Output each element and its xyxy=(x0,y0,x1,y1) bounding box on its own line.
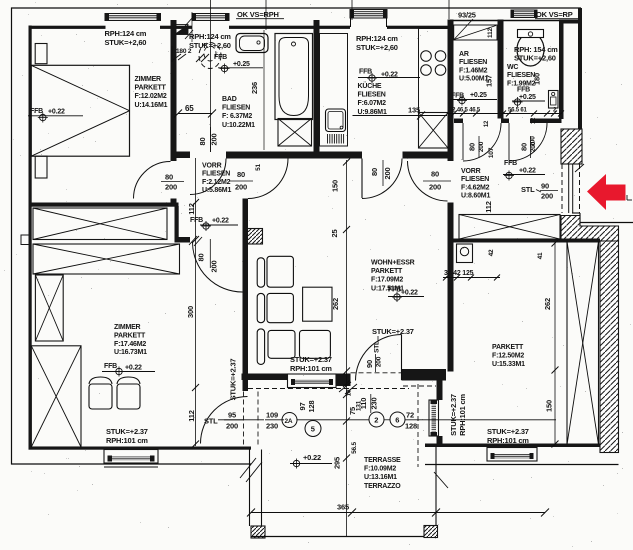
svg-text:200: 200 xyxy=(530,141,537,152)
svg-text:KÜCHE: KÜCHE xyxy=(358,81,382,90)
circled 2 xyxy=(369,412,384,427)
circled 6 xyxy=(390,412,405,427)
dim line bad 65 xyxy=(178,113,212,115)
wall Zimmer1/Bad xyxy=(171,20,177,161)
wall top inner face segments xyxy=(29,26,106,29)
outer boundary bottom-left xyxy=(11,463,251,465)
chair 2 zimmer2 xyxy=(117,384,140,409)
svg-text:109: 109 xyxy=(266,411,278,420)
slash ticks living bottom wall end xyxy=(339,382,351,392)
svg-text:128: 128 xyxy=(307,401,316,413)
svg-text:+0.22: +0.22 xyxy=(125,365,142,372)
nightstand bottom xyxy=(35,156,47,178)
slash ticks bad wall 18/12 xyxy=(196,54,204,62)
wardrobe2 zimmer2 xyxy=(33,244,180,274)
svg-text:128: 128 xyxy=(405,422,417,431)
pier hatched living top-left xyxy=(248,229,263,245)
svg-text:180 2: 180 2 xyxy=(176,48,192,55)
hall wardrobe X xyxy=(459,215,560,240)
dim chain mid x346 xyxy=(346,160,348,373)
svg-text:72: 72 xyxy=(406,411,414,420)
svg-text:ZIMMER: ZIMMER xyxy=(135,76,162,83)
svg-text:FLIESEN: FLIESEN xyxy=(358,92,386,99)
svg-text:200: 200 xyxy=(210,261,219,273)
svg-text:80: 80 xyxy=(370,168,379,176)
svg-text:STUK=+2,60: STUK=+2,60 xyxy=(105,38,147,47)
sofa cushions living xyxy=(267,256,293,287)
svg-text:2: 2 xyxy=(374,415,378,424)
svg-text:F:17.46M2: F:17.46M2 xyxy=(114,341,146,348)
svg-text:STUK=+2,60: STUK=+2,60 xyxy=(514,54,556,63)
tick entry step xyxy=(575,164,584,172)
door terrace arc + leaf xyxy=(356,335,402,381)
svg-text:+0.25: +0.25 xyxy=(233,61,250,68)
svg-text:80: 80 xyxy=(520,143,529,151)
dim line hall 34 42 125 xyxy=(443,277,500,279)
dim chain right x555 xyxy=(554,242,556,446)
svg-text:FFB: FFB xyxy=(104,363,117,370)
svg-text:200: 200 xyxy=(478,141,485,152)
dim chain mid lower x351 xyxy=(346,373,348,536)
leader line row xyxy=(218,419,264,421)
washing machine xyxy=(457,244,473,263)
svg-text:FFB: FFB xyxy=(30,108,43,115)
svg-text:51: 51 xyxy=(255,164,262,171)
svg-text:FFB: FFB xyxy=(504,160,517,167)
window W3 top (kitchen) xyxy=(350,10,387,19)
hatch wall entry east xyxy=(561,129,582,164)
svg-text:U:17.51M1: U:17.51M1 xyxy=(371,285,404,292)
svg-text:STUK=+2.37: STUK=+2.37 xyxy=(487,427,529,436)
wall WC bottom piece xyxy=(530,119,562,124)
svg-text:F:4.62M2: F:4.62M2 xyxy=(461,184,490,191)
wall top inner face right portion (AR/WC) xyxy=(448,20,582,22)
svg-text:365: 365 xyxy=(337,503,349,512)
door vorr1-zimmer2 arc xyxy=(193,242,243,292)
bathtub xyxy=(275,34,313,120)
hatch wall corner A xyxy=(561,216,619,242)
svg-text:RPH:124 cm: RPH:124 cm xyxy=(189,32,231,41)
svg-text:112: 112 xyxy=(187,203,196,215)
radiator entry xyxy=(549,91,559,109)
tick top window W1 right xyxy=(191,12,193,42)
dashed zimmer2 south door xyxy=(243,392,245,446)
toilet WC xyxy=(517,33,544,66)
svg-text:RPH:124 cm: RPH:124 cm xyxy=(356,34,398,43)
window W1 top (zimmer1) xyxy=(105,14,161,21)
svg-text:BAD: BAD xyxy=(222,96,237,103)
svg-text:262: 262 xyxy=(331,298,340,310)
svg-text:12 46.5 46.5: 12 46.5 46.5 xyxy=(449,108,481,114)
svg-text:200: 200 xyxy=(376,356,383,367)
svg-text:RPH:124 cm: RPH:124 cm xyxy=(105,29,147,38)
svg-text:97: 97 xyxy=(298,403,307,411)
wall bottom-left exterior xyxy=(29,447,252,450)
svg-text:U:5.86M1: U:5.86M1 xyxy=(202,187,231,194)
door vorr1-living arc xyxy=(248,159,288,199)
svg-text:FFB: FFB xyxy=(359,69,372,76)
svg-text:F:10.09M2: F:10.09M2 xyxy=(364,466,396,473)
svg-text:200: 200 xyxy=(210,134,219,146)
wall Bad/Kueche bottom xyxy=(226,152,362,159)
svg-text:200: 200 xyxy=(165,183,177,192)
terrace post left hatched xyxy=(251,526,265,538)
outer boundary bottom-right xyxy=(425,464,619,466)
svg-text:6: 6 xyxy=(395,415,399,424)
svg-text:236: 236 xyxy=(250,82,259,94)
wall parkett room top xyxy=(452,239,600,243)
svg-text:80: 80 xyxy=(468,143,477,151)
dim 236 bad xyxy=(263,30,265,150)
terrace right line xyxy=(435,447,437,526)
svg-text:80: 80 xyxy=(165,173,173,182)
svg-text:STL: STL xyxy=(204,417,218,426)
wall entry inner right xyxy=(559,20,564,120)
svg-text:F:2.12M2: F:2.12M2 xyxy=(202,179,231,186)
svg-text:41: 41 xyxy=(537,252,544,259)
svg-text:80: 80 xyxy=(197,254,206,262)
svg-text:12: 12 xyxy=(484,120,490,127)
svg-text:F:17.09M2: F:17.09M2 xyxy=(371,277,403,284)
wardrobe tall zimmer2 xyxy=(31,346,81,447)
svg-text:80: 80 xyxy=(198,138,207,146)
svg-text:PARKETT: PARKETT xyxy=(135,85,167,92)
circled 2A xyxy=(282,413,297,428)
entry door dashed xyxy=(561,164,563,213)
door kitchen arc + leaf xyxy=(362,159,402,199)
svg-text:PARKETT: PARKETT xyxy=(114,332,146,339)
svg-text:+0.22: +0.22 xyxy=(303,453,321,462)
bed zimmer1 xyxy=(31,65,129,156)
svg-text:300: 300 xyxy=(186,306,195,318)
chair 1 zimmer2 xyxy=(89,384,112,409)
dim line AR/WC row xyxy=(448,113,562,115)
svg-text:U:5.00M1: U:5.00M1 xyxy=(459,76,488,83)
svg-text:34 42 125: 34 42 125 xyxy=(444,270,474,277)
svg-text:107: 107 xyxy=(488,147,495,158)
svg-text:FLIESEN: FLIESEN xyxy=(202,171,230,178)
dim chain left x195 xyxy=(195,158,197,446)
kitchen sink xyxy=(326,109,346,132)
svg-text:56.5: 56.5 xyxy=(351,441,358,453)
svg-text:F:12.02M2: F:12.02M2 xyxy=(135,93,167,100)
svg-text:FFB: FFB xyxy=(214,54,227,61)
wall Bad bottom left stub xyxy=(176,152,190,159)
svg-text:90: 90 xyxy=(365,360,374,368)
svg-text:FLIESEN: FLIESEN xyxy=(222,105,250,112)
dashed terrace door threshold xyxy=(351,372,402,374)
svg-text:RPH:101 cm: RPH:101 cm xyxy=(290,364,332,373)
svg-text:200: 200 xyxy=(429,183,441,192)
wall step block terrace corner xyxy=(402,369,447,381)
wall bump left exterior xyxy=(21,235,29,245)
slash ticks vorr1 bottom opening xyxy=(189,236,197,245)
slash ticks zimmer2 terrace corner xyxy=(240,458,256,478)
outer boundary thin line top xyxy=(11,7,581,9)
dashed overhang line living xyxy=(248,388,409,390)
svg-text:WOHN+ESSR: WOHN+ESSR xyxy=(371,260,415,267)
svg-text:STUK=+2.37: STUK=+2.37 xyxy=(229,359,238,401)
svg-text:F:1.46M2: F:1.46M2 xyxy=(459,67,488,74)
svg-text:F: 6.37M2: F: 6.37M2 xyxy=(222,113,252,120)
svg-text:U:10.22M1: U:10.22M1 xyxy=(222,122,255,129)
window W7 west (parkett, vertical) xyxy=(429,400,439,436)
svg-text:F:6.07M2: F:6.07M2 xyxy=(358,100,387,107)
svg-text:STUK=+2.37: STUK=+2.37 xyxy=(372,327,414,336)
svg-text:112: 112 xyxy=(487,27,494,37)
svg-text:WC: WC xyxy=(507,64,518,71)
svg-text:+0.25: +0.25 xyxy=(470,92,487,99)
dashed parkett west xyxy=(417,384,419,467)
wall living bottom xyxy=(242,374,288,381)
svg-text:FLIESEN: FLIESEN xyxy=(459,59,487,66)
svg-text:OK VS=RPH: OK VS=RPH xyxy=(237,10,279,19)
svg-text:TERRAZZO: TERRAZZO xyxy=(364,483,401,490)
wall right exterior top xyxy=(578,8,582,131)
svg-text:U:13.16M1: U:13.16M1 xyxy=(364,474,397,481)
svg-text:262: 262 xyxy=(543,298,552,310)
wall top inner line under windows xyxy=(105,20,161,22)
window W4 top (entry) xyxy=(511,10,537,18)
svg-text:135: 135 xyxy=(408,106,420,115)
dim line kitchen 135 xyxy=(353,115,448,117)
svg-text:U:15.33M1: U:15.33M1 xyxy=(492,361,525,368)
svg-text:STL: STL xyxy=(374,341,381,353)
parkett tall wardrobe X xyxy=(567,242,599,445)
small L mark right edge xyxy=(626,195,628,200)
svg-text:150: 150 xyxy=(545,400,554,412)
svg-text:200: 200 xyxy=(226,422,238,431)
kitchen drainer xyxy=(327,134,329,144)
svg-text:295: 295 xyxy=(333,457,342,469)
nightstand top xyxy=(35,44,47,64)
svg-text:112: 112 xyxy=(484,201,493,213)
svg-text:PARKETT: PARKETT xyxy=(371,268,403,275)
svg-text:PARKETT: PARKETT xyxy=(492,344,524,351)
svg-text:230: 230 xyxy=(266,422,278,431)
svg-text:56.5 61: 56.5 61 xyxy=(508,108,527,114)
red arrow pointer xyxy=(587,174,626,210)
kitchen counter right + stove xyxy=(419,29,449,113)
window W5 bottom (zimmer2) xyxy=(104,450,158,464)
wall AR/WC xyxy=(498,20,504,119)
svg-text:STUK=+2.37: STUK=+2.37 xyxy=(106,427,148,436)
step out corner lines xyxy=(572,212,580,214)
svg-text:+0.22: +0.22 xyxy=(519,168,536,175)
svg-text:OK VS=RP: OK VS=RP xyxy=(536,10,573,19)
wall VORR1 right / living left xyxy=(243,156,249,159)
dim 365 terrace xyxy=(251,512,545,514)
svg-text:STUK=+2.37: STUK=+2.37 xyxy=(290,355,332,364)
wardrobe1 zimmer2 xyxy=(33,208,167,240)
cabinet narrow zimmer2 xyxy=(35,275,63,341)
flue symbol zimmer1/bad wall xyxy=(174,25,188,35)
svg-text:+0.25: +0.25 xyxy=(519,94,536,101)
svg-text:80: 80 xyxy=(237,170,245,179)
svg-text:F:12.50M2: F:12.50M2 xyxy=(492,352,524,359)
svg-text:STUK=+2,60: STUK=+2,60 xyxy=(356,43,398,52)
terrace left wall lines xyxy=(249,450,251,527)
svg-text:+0.22: +0.22 xyxy=(212,218,229,225)
slash ticks window W2 left end xyxy=(185,17,193,26)
svg-text:VORR: VORR xyxy=(202,163,222,170)
wall Zimmer1/Zimmer2 xyxy=(30,203,179,207)
bath cabinet X xyxy=(278,119,312,147)
svg-text:STUK=+2.37: STUK=+2.37 xyxy=(449,394,458,436)
wall parkett west lower xyxy=(437,372,443,401)
sofa back segments living xyxy=(257,258,264,287)
outer boundary thin line left xyxy=(11,8,13,465)
svg-text:12: 12 xyxy=(531,117,537,124)
svg-text:25: 25 xyxy=(330,230,339,238)
svg-text:+0.22: +0.22 xyxy=(48,109,65,116)
svg-text:STUK=+2,60: STUK=+2,60 xyxy=(189,41,231,50)
window W6 bottom (parkett) xyxy=(487,448,537,462)
door living-corridor arc xyxy=(408,161,448,201)
svg-text:200: 200 xyxy=(383,168,392,180)
svg-text:200: 200 xyxy=(235,183,247,192)
door bad arc xyxy=(190,159,226,195)
hatch wall east B xyxy=(600,241,619,453)
dim extension lines top xyxy=(210,0,212,152)
svg-text:U:8.60M1: U:8.60M1 xyxy=(461,193,490,200)
door AR arc xyxy=(463,123,501,161)
circled 5 xyxy=(305,421,321,437)
svg-text:F:1.99M2: F:1.99M2 xyxy=(507,80,536,87)
svg-text:VORR: VORR xyxy=(461,168,481,175)
svg-text:TERRASSE: TERRASSE xyxy=(364,457,401,464)
svg-text:150: 150 xyxy=(331,180,340,192)
door zimmer1 arc xyxy=(134,162,171,199)
wall left exterior xyxy=(29,26,32,449)
svg-text:230: 230 xyxy=(370,398,379,410)
svg-text:U:9.86M1: U:9.86M1 xyxy=(358,109,387,116)
window W2 top (bad) xyxy=(192,14,229,21)
svg-text:RPH:101 cm: RPH:101 cm xyxy=(458,394,467,436)
svg-text:110: 110 xyxy=(359,398,368,410)
svg-text:65: 65 xyxy=(185,104,194,113)
svg-text:U:16.73M1: U:16.73M1 xyxy=(114,349,147,356)
kitchen counter left xyxy=(320,34,348,147)
svg-text:95: 95 xyxy=(228,411,236,420)
washbasin bad xyxy=(236,34,268,53)
svg-text:U:14.16M1: U:14.16M1 xyxy=(135,102,168,109)
svg-text:RPH:101 cm: RPH:101 cm xyxy=(487,436,529,445)
kitchen fridge X xyxy=(419,113,449,149)
svg-text:93/25: 93/25 xyxy=(458,11,476,20)
table living xyxy=(303,287,332,321)
svg-text:90: 90 xyxy=(541,182,549,191)
svg-text:FFB: FFB xyxy=(517,87,530,94)
AR shaft xyxy=(454,25,497,40)
svg-text:ZIMMER: ZIMMER xyxy=(114,324,141,331)
svg-text:FLIESEN: FLIESEN xyxy=(507,72,535,79)
wall bottom-right exterior xyxy=(425,444,600,448)
svg-text:FFB: FFB xyxy=(190,217,203,224)
door zimmer2-south arc xyxy=(201,397,248,444)
svg-text:200: 200 xyxy=(541,192,553,201)
wall corridor top segments xyxy=(454,119,463,124)
door WC arc xyxy=(509,123,547,161)
svg-text:FLIESEN: FLIESEN xyxy=(461,176,489,183)
svg-text:5: 5 xyxy=(311,425,315,434)
window W8 living/terrace xyxy=(288,374,337,388)
terrace post right hatched xyxy=(424,526,438,538)
terrace bottom line xyxy=(251,536,436,538)
svg-text:112: 112 xyxy=(187,410,196,422)
svg-text:80: 80 xyxy=(431,170,439,179)
wall Bad/Kueche xyxy=(314,20,320,153)
wall A living/corridor right xyxy=(448,20,454,162)
svg-text:2A: 2A xyxy=(285,418,293,425)
svg-text:42: 42 xyxy=(488,249,495,256)
svg-text:AR: AR xyxy=(459,51,469,58)
toilet bad (dashed) xyxy=(199,43,221,69)
leader diagonal terrace/parkett corner xyxy=(434,472,448,488)
svg-text:STL: STL xyxy=(521,185,535,194)
svg-text:RPH:101 cm: RPH:101 cm xyxy=(106,436,148,445)
wall kitchen bottom right stub xyxy=(403,152,454,159)
